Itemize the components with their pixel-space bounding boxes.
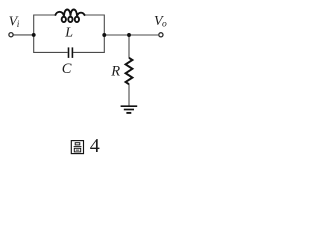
svg-text:C: C — [62, 61, 72, 77]
svg-text:o: o — [162, 20, 167, 30]
svg-text:4: 4 — [90, 135, 100, 157]
svg-text:R: R — [110, 63, 120, 79]
svg-text:i: i — [17, 20, 20, 30]
svg-text:L: L — [64, 25, 73, 40]
